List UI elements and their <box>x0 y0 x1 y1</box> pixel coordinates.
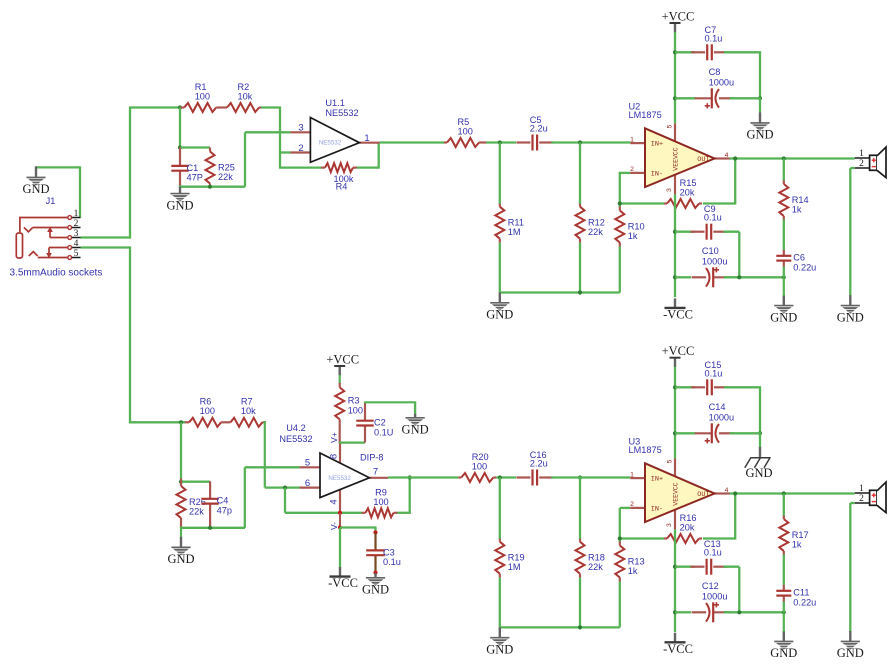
svg-text:100: 100 <box>472 461 487 471</box>
svg-text:R13: R13 <box>628 557 645 567</box>
capacitor C10 (polarized) <box>692 246 731 287</box>
svg-text:C11: C11 <box>793 588 809 598</box>
ground GND c14 (chassis) <box>745 447 773 480</box>
junction pin4 b (red) <box>338 525 342 529</box>
svg-text:5: 5 <box>666 124 673 128</box>
wire pin2-w <box>620 172 631 174</box>
svg-text:0.1u: 0.1u <box>704 548 722 558</box>
wire c78-v <box>759 52 761 98</box>
svg-text:47p: 47p <box>217 505 232 515</box>
wire div2-h <box>181 481 210 483</box>
svg-text:R15: R15 <box>680 178 697 188</box>
svg-text:1M: 1M <box>508 562 521 572</box>
wire c13-r <box>723 566 739 568</box>
wire gnd2-rail <box>180 527 245 529</box>
svg-text:2: 2 <box>630 501 634 508</box>
svg-text:LM1875: LM1875 <box>629 445 662 455</box>
junction n8c <box>578 625 582 629</box>
svg-text:R25: R25 <box>218 163 235 173</box>
svg-text:4: 4 <box>329 499 340 504</box>
wire r7-drop <box>264 421 266 487</box>
junction n9a <box>673 385 677 389</box>
resistor R9 <box>362 508 398 517</box>
svg-text:NE5532: NE5532 <box>319 140 342 147</box>
svg-text:1000u: 1000u <box>709 77 735 87</box>
junction n3b <box>673 96 677 100</box>
svg-text:GND: GND <box>486 643 513 657</box>
ground GND rail2 <box>486 627 513 656</box>
wire spk1-2w <box>850 167 854 169</box>
svg-text:GND: GND <box>770 310 797 324</box>
wire div1-h <box>180 146 210 148</box>
wire in-minus2-h <box>620 537 664 539</box>
connector J1 pin 3 <box>68 229 81 240</box>
svg-text:NE5532: NE5532 <box>325 108 358 118</box>
wire c8-gnd-v <box>759 98 761 112</box>
wire gnd-jack-v <box>79 166 81 217</box>
wire fb2-h <box>285 512 362 514</box>
svg-text:1: 1 <box>859 484 864 494</box>
svg-text:6: 6 <box>305 478 310 489</box>
svg-text:OUT: OUT <box>697 491 709 499</box>
wire pin2-corner <box>619 172 621 174</box>
wire u1-out <box>380 141 445 143</box>
wire inv-drop1 <box>279 108 281 169</box>
svg-text:GND: GND <box>837 646 864 660</box>
wire pin5-h <box>245 466 300 468</box>
wire r9-riser <box>409 478 411 513</box>
svg-text:10k: 10k <box>241 406 256 416</box>
svg-text:R20: R20 <box>472 452 489 462</box>
junction n4c <box>737 275 741 279</box>
svg-text:R4: R4 <box>336 182 348 192</box>
wire rail2 <box>499 626 620 628</box>
svg-text:2.2u: 2.2u <box>530 124 548 134</box>
ground GND c11 <box>770 631 797 660</box>
wire rail1 <box>499 291 620 293</box>
speaker LS1 <box>855 147 886 178</box>
wire c6-b <box>783 267 785 278</box>
wire spk2-2w <box>850 502 854 504</box>
wire c12-r <box>724 611 785 613</box>
resistor R20 <box>458 452 496 482</box>
svg-text:10k: 10k <box>238 91 253 101</box>
wire pin4-out-h <box>81 246 131 248</box>
svg-text:4: 4 <box>74 239 79 249</box>
wire c6-gnd-green <box>783 277 785 296</box>
wire pin5-hook <box>244 467 246 528</box>
svg-text:-VCC: -VCC <box>328 576 358 590</box>
wire c2-gnd-h <box>364 401 416 403</box>
wire r17-top <box>783 494 785 516</box>
svg-text:1: 1 <box>630 471 634 478</box>
wire pin4-dropper <box>129 246 131 423</box>
svg-text:GND: GND <box>22 182 49 196</box>
svg-text:100: 100 <box>373 497 388 507</box>
wire r19-gnd <box>499 578 501 628</box>
junction n6c <box>179 480 183 484</box>
svg-text:R10: R10 <box>628 222 645 232</box>
svg-text:3: 3 <box>74 229 79 239</box>
wire c10-r <box>724 276 785 278</box>
wire r12-top <box>579 143 581 204</box>
svg-text:VEEVCC: VEEVCC <box>672 482 679 506</box>
wire fb1-riser <box>378 143 380 168</box>
svg-text:0.1u: 0.1u <box>705 33 723 43</box>
resistor R25 <box>206 148 235 188</box>
wire r20-c16 <box>496 476 516 478</box>
junction n1a <box>178 105 182 109</box>
svg-text:1: 1 <box>630 136 634 143</box>
svg-text:2.2u: 2.2u <box>530 459 548 469</box>
svg-text:22k: 22k <box>189 507 204 517</box>
svg-text:5: 5 <box>666 459 673 463</box>
svg-text:+VCC: +VCC <box>326 353 359 367</box>
wire r15-out <box>703 202 735 204</box>
svg-text:100: 100 <box>458 126 473 136</box>
svg-text:22k: 22k <box>218 172 233 182</box>
ground GND c2 <box>402 414 429 437</box>
svg-text:4: 4 <box>725 487 729 494</box>
svg-text:20k: 20k <box>680 187 695 197</box>
wire r15-riser <box>734 159 736 205</box>
wire r11-top <box>499 143 501 204</box>
resistor R15 <box>664 178 702 208</box>
svg-text:3: 3 <box>666 188 673 192</box>
svg-text:0.22u: 0.22u <box>793 597 816 607</box>
wire c1213-v <box>738 567 740 613</box>
wire u4-out <box>388 476 458 478</box>
wire in-minus-h <box>620 202 664 204</box>
power-amp U3 LM1875 <box>629 436 731 529</box>
wire vcc2-v <box>674 367 676 459</box>
wire c8-l <box>675 97 696 99</box>
wire c1415-v <box>759 387 761 433</box>
resistor R7 <box>230 397 266 427</box>
resistor R18 <box>576 538 605 578</box>
svg-text:3.5mmAudio sockets: 3.5mmAudio sockets <box>10 267 103 278</box>
svg-text:IN+: IN+ <box>651 141 663 149</box>
wire r6-r7 link <box>221 421 230 423</box>
svg-text:-VCC: -VCC <box>663 307 693 321</box>
junction n11a <box>733 491 737 495</box>
resistor R26 <box>177 479 206 529</box>
wire c9-l <box>675 231 695 233</box>
junction n2a <box>498 140 502 144</box>
capacitor C15 <box>691 360 728 396</box>
wire pin2-stub-w <box>280 151 291 153</box>
svg-text:R1: R1 <box>195 82 207 92</box>
svg-text:0.1u: 0.1u <box>704 213 722 223</box>
wire c14-gnd-v <box>759 433 761 447</box>
resistor R6 <box>185 397 221 427</box>
svg-text:GND: GND <box>837 310 864 324</box>
svg-text:100: 100 <box>200 406 215 416</box>
junction n8d <box>618 536 622 540</box>
junction n2d <box>618 201 622 205</box>
wire r18-top <box>579 478 581 539</box>
svg-text:R16: R16 <box>680 513 697 523</box>
svg-text:0.1u: 0.1u <box>383 557 401 567</box>
wire c16-u3 <box>551 476 630 478</box>
svg-text:7: 7 <box>373 467 378 478</box>
power +VCC ch1 <box>662 10 695 33</box>
junction n10d <box>782 610 786 614</box>
wire r17-c11 <box>783 555 785 586</box>
svg-text:V+: V+ <box>329 432 339 443</box>
wire ch2-in-h <box>130 421 185 423</box>
junction n5b <box>782 156 786 160</box>
wire vcc1-v <box>674 32 676 123</box>
wire r12-gnd <box>579 243 581 294</box>
capacitor C7 <box>691 25 728 61</box>
svg-text:22k: 22k <box>588 562 603 572</box>
svg-text:1: 1 <box>859 149 864 159</box>
svg-text:R19: R19 <box>508 553 525 563</box>
capacitor C1 <box>171 147 203 186</box>
wire c10-l <box>675 276 691 278</box>
svg-text:1000u: 1000u <box>709 412 735 422</box>
ground GND c3 <box>362 573 389 597</box>
svg-text:20k: 20k <box>680 522 695 532</box>
wire r14-top <box>783 159 785 181</box>
svg-text:3: 3 <box>298 123 303 134</box>
resistor R16 <box>664 513 702 543</box>
wire in-minus-v <box>619 173 621 208</box>
ground GND spk2 <box>837 631 864 660</box>
resistor R11 <box>495 203 524 243</box>
wire pin4-ext <box>339 513 341 528</box>
ground GND c6 <box>770 295 797 324</box>
svg-text:GND: GND <box>486 308 513 322</box>
power +VCC ch2 <box>326 353 359 376</box>
wire div2-v <box>180 422 182 479</box>
svg-text:R18: R18 <box>588 553 605 563</box>
wire r7-out <box>265 421 266 423</box>
junction n3c <box>758 96 762 100</box>
wire c910-v <box>738 232 740 278</box>
wire vcc2-r3 <box>339 375 341 383</box>
connector J1 3.5mm jack symbol <box>16 218 68 259</box>
svg-text:GND: GND <box>166 198 193 212</box>
wire pin3-hook-h <box>245 131 291 133</box>
svg-text:C14: C14 <box>709 402 726 412</box>
wire div1-v <box>179 108 181 148</box>
power -VCC u4 <box>328 567 358 590</box>
svg-text:OUT: OUT <box>697 156 709 164</box>
wire in-minus2-v <box>619 508 621 543</box>
ground GND jack <box>22 166 49 196</box>
junction n1c <box>208 185 212 189</box>
junction n7a <box>408 475 412 479</box>
capacitor C9 <box>691 204 728 240</box>
capacitor C5 <box>516 115 553 151</box>
resistor R14 <box>779 180 808 220</box>
wire c13-l <box>675 566 695 568</box>
wire pin3-out-h <box>81 236 131 238</box>
wire ch1-in-h <box>130 106 180 108</box>
connector J1 pin 1 <box>68 209 81 220</box>
svg-text:R7: R7 <box>241 397 253 407</box>
svg-text:R3: R3 <box>348 396 360 406</box>
wire r10-gnd <box>619 247 621 293</box>
capacitor C11 <box>776 585 816 608</box>
wire r16-riser <box>734 494 736 540</box>
svg-text:U4.2: U4.2 <box>286 423 305 433</box>
resistor R13 <box>615 542 644 582</box>
junction pin4 a (red) <box>338 511 342 515</box>
wire c3-hook-v <box>374 526 376 532</box>
wire gnd1-rail <box>179 186 245 188</box>
wire pin6-h <box>265 486 300 488</box>
wire pin2-w2 <box>620 507 631 509</box>
junction n8a <box>498 475 502 479</box>
junction n8b <box>578 475 582 479</box>
wire c7-r <box>724 51 761 53</box>
wire r16-out <box>703 537 735 539</box>
svg-text:8: 8 <box>329 454 340 459</box>
svg-text:LM1875: LM1875 <box>629 110 662 120</box>
wire c15-r <box>724 386 761 388</box>
svg-text:1: 1 <box>74 209 79 219</box>
svg-text:5: 5 <box>305 458 310 469</box>
svg-text:R2: R2 <box>238 82 250 92</box>
wire out1-w <box>730 157 855 159</box>
wire r11-gnd <box>499 243 501 293</box>
speaker LS2 <box>855 482 886 512</box>
capacitor C13 <box>691 539 728 575</box>
svg-text:+VCC: +VCC <box>662 10 695 24</box>
ground GND c8 <box>746 113 773 142</box>
wire vee2-hook-v <box>339 528 341 569</box>
svg-text:IN-: IN- <box>651 171 663 179</box>
ground GND rail1 <box>486 293 513 322</box>
wire c7-l <box>675 51 695 53</box>
resistor R10 <box>615 207 644 247</box>
svg-text:V-: V- <box>329 522 339 530</box>
wire c11-b <box>783 602 785 613</box>
wire r5-c5 <box>486 141 516 143</box>
svg-text:1000u: 1000u <box>702 256 728 266</box>
svg-text:R14: R14 <box>792 195 809 205</box>
junction n2c <box>578 290 582 294</box>
capacitor C4 <box>201 481 232 528</box>
svg-text:NE5532: NE5532 <box>328 475 351 482</box>
junction n6a <box>179 420 183 424</box>
resistor R1 <box>180 82 216 112</box>
wire r13-gnd <box>619 582 621 628</box>
connector J1 pin 5 <box>68 249 81 260</box>
svg-text:2: 2 <box>298 143 303 154</box>
wire out2-w <box>730 492 855 494</box>
junction n2b <box>578 140 582 144</box>
svg-text:1M: 1M <box>508 227 521 237</box>
svg-text:R5: R5 <box>458 117 470 127</box>
wire r7-corner <box>264 421 265 423</box>
svg-text:GND: GND <box>402 423 429 437</box>
svg-text:C2: C2 <box>374 418 386 428</box>
wire r1-r2 link <box>216 106 227 108</box>
wire vee2-v <box>674 529 676 632</box>
svg-text:-VCC: -VCC <box>663 642 693 656</box>
junction n1b <box>178 145 182 149</box>
resistor R19 <box>495 538 524 578</box>
ground GND input2 <box>167 537 194 566</box>
wire c9-r <box>723 231 739 233</box>
wire c12-l <box>675 611 691 613</box>
junction n4a <box>673 230 677 234</box>
svg-text:GND: GND <box>746 128 773 142</box>
svg-text:C6: C6 <box>793 253 805 263</box>
wire c5-u2 <box>551 141 630 143</box>
resistor R17 <box>779 515 808 555</box>
svg-text:DIP-8: DIP-8 <box>360 453 384 463</box>
wire r2-out <box>261 106 281 108</box>
wire c14-l <box>675 432 696 434</box>
wire r3-c2-h <box>339 441 365 443</box>
svg-text:0.1U: 0.1U <box>374 427 393 437</box>
svg-text:1k: 1k <box>628 566 638 576</box>
svg-text:0.1u: 0.1u <box>705 368 723 378</box>
wire r9-out <box>398 512 411 514</box>
svg-text:GND: GND <box>167 552 194 566</box>
wire r18-gnd <box>579 578 581 629</box>
svg-text:1: 1 <box>364 133 369 144</box>
wire vee-hook-h <box>340 526 376 528</box>
svg-text:22k: 22k <box>588 227 603 237</box>
svg-text:2: 2 <box>859 159 864 169</box>
junction c3-top (red) <box>373 530 377 534</box>
wire c14-r <box>730 432 761 434</box>
capacitor C8 (polarized) <box>695 67 734 109</box>
svg-text:47P: 47P <box>187 173 203 183</box>
power -VCC ch1 <box>663 298 693 321</box>
junction c3-bot (red) <box>373 571 377 575</box>
wire r3-pin8 <box>339 423 341 443</box>
op-amp U4.2 NE5532 <box>279 423 388 530</box>
wire r19-top <box>499 478 501 539</box>
svg-text:IN-: IN- <box>651 506 663 514</box>
svg-text:3: 3 <box>666 523 673 527</box>
wire r14-c6 <box>783 220 785 251</box>
svg-text:100: 100 <box>348 406 363 416</box>
svg-text:VEEVCC: VEEVCC <box>672 147 679 171</box>
junction n11b <box>782 491 786 495</box>
junction n4b <box>673 275 677 279</box>
junction n10c <box>737 610 741 614</box>
resistor 100k <box>321 163 357 172</box>
svg-text:2: 2 <box>74 219 79 229</box>
svg-text:C1: C1 <box>187 163 199 173</box>
svg-text:1k: 1k <box>792 205 802 215</box>
junction n5a <box>733 156 737 160</box>
svg-text:2: 2 <box>859 494 864 504</box>
svg-text:C8: C8 <box>709 67 721 77</box>
wire c15-l <box>675 386 695 388</box>
capacitor C12 (polarized) <box>692 581 731 623</box>
resistor R2 <box>227 82 262 112</box>
wire vee1-v <box>674 194 676 297</box>
svg-text:R11: R11 <box>508 218 524 228</box>
svg-text:R17: R17 <box>792 530 809 540</box>
capacitor C3 <box>366 532 401 573</box>
wire c2-gnd-v <box>414 402 416 414</box>
svg-text:C3: C3 <box>383 547 395 557</box>
svg-text:R12: R12 <box>588 218 605 228</box>
ground GND spk1 <box>837 295 864 324</box>
svg-text:GND: GND <box>770 646 797 660</box>
svg-text:U1.1: U1.1 <box>325 98 344 108</box>
